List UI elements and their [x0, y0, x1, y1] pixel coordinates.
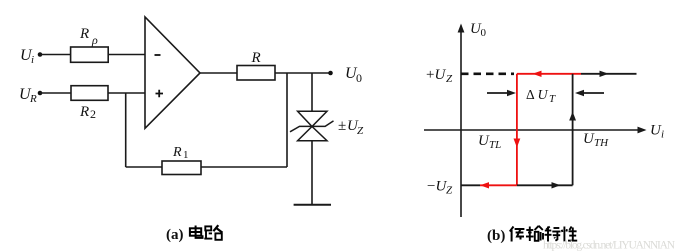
dashed line at +UZ: [461, 73, 514, 76]
wire feedback vertical to noninverting input: [125, 93, 127, 167]
svg-text:i: i: [31, 54, 34, 66]
svg-text:−: −: [427, 179, 435, 195]
wire feedback horizontal right of R1: [201, 166, 287, 168]
axis Ui arrowhead: [638, 127, 647, 134]
wire output node to zener: [311, 73, 313, 111]
op-amp noninverting pin plus sign: [156, 90, 164, 97]
svg-text:i: i: [661, 129, 664, 141]
wire zener to ground: [311, 141, 313, 205]
wire Rp to op-amp inverting input: [108, 54, 145, 56]
svg-text:R: R: [79, 26, 89, 42]
svg-text:U: U: [538, 88, 549, 103]
svg-text:0: 0: [356, 71, 362, 85]
ground: [294, 204, 331, 206]
svg-text:2: 2: [90, 107, 96, 121]
svg-text:R: R: [29, 93, 37, 105]
red down arrowhead: [514, 139, 521, 148]
svg-text:Δ: Δ: [526, 87, 535, 102]
bottom red arrowhead left: [480, 182, 489, 188]
red top wire: [517, 73, 581, 75]
svg-text:±: ±: [338, 118, 346, 134]
node U0 terminal dot: [328, 71, 333, 76]
caption glyph shu: [526, 226, 543, 241]
zener diode pair DZ bottom triangle: [298, 127, 327, 141]
svg-text:R: R: [251, 50, 261, 66]
node Ui terminal dot: [38, 52, 43, 57]
wire R2 to op-amp noninverting input: [108, 92, 145, 94]
axis U0 vertical: [460, 26, 462, 218]
svg-text:https://blog.csdn.net/LIYUANNI: https://blog.csdn.net/LIYUANNIAN: [543, 240, 676, 251]
black up arrowhead: [569, 112, 576, 121]
svg-text:TH: TH: [594, 137, 609, 149]
caption glyph te: [545, 227, 561, 242]
bottom black arrowhead right: [552, 182, 561, 188]
wire feedback horizontal left of R1: [126, 166, 162, 168]
bottom black wire left: [461, 184, 480, 186]
red vertical wire at UTL: [516, 74, 518, 186]
wire R to output node: [275, 72, 331, 74]
caption glyph dian: [190, 226, 203, 238]
resistor R2: [71, 86, 108, 101]
resistor R1: [162, 161, 201, 175]
caption glyph lu: [204, 225, 222, 240]
axis U0 arrowhead: [458, 24, 465, 33]
mid arrow pointing left at UTH: [582, 92, 604, 94]
red top arrowhead left: [533, 71, 542, 77]
wire UR to R2: [40, 92, 71, 94]
wire op-amp output to R: [200, 72, 237, 74]
mid arrow pointing right at UTL: [487, 92, 509, 94]
bottom black wire right: [517, 184, 573, 186]
svg-text:1: 1: [183, 149, 189, 161]
svg-text:(a): (a): [166, 227, 184, 243]
svg-text:Z: Z: [446, 185, 453, 197]
svg-text:R: R: [172, 145, 182, 160]
wire Ui to Rp: [40, 54, 71, 56]
axis Ui horizontal: [424, 129, 645, 131]
resistor Rp: [71, 47, 109, 62]
svg-text:T: T: [549, 93, 556, 105]
svg-text:0: 0: [481, 27, 487, 39]
svg-text:TL: TL: [489, 139, 501, 151]
svg-text:ρ: ρ: [91, 33, 98, 47]
caption glyph xing: [562, 227, 577, 242]
svg-text:Z: Z: [446, 73, 453, 85]
resistor R: [237, 66, 275, 81]
wire feedback vertical from output node: [286, 73, 288, 167]
op-amp U1: [145, 17, 200, 128]
zener diode pair DZ cathode bar with wings: [290, 121, 334, 132]
bottom red wire: [480, 184, 517, 186]
node UR terminal dot: [38, 91, 43, 96]
svg-text:R: R: [79, 104, 89, 120]
black top wire: [581, 73, 637, 75]
black top arrowhead right: [600, 71, 609, 77]
zener diode pair DZ top triangle: [298, 111, 327, 126]
caption glyph chuan: [510, 227, 525, 242]
svg-text:U: U: [435, 67, 447, 83]
svg-text:Z: Z: [357, 125, 364, 137]
svg-text:+: +: [426, 67, 434, 83]
black vertical wire at UTH: [572, 74, 574, 186]
svg-text:(b): (b): [487, 228, 505, 244]
op-amp inverting pin minus sign: [155, 54, 161, 56]
